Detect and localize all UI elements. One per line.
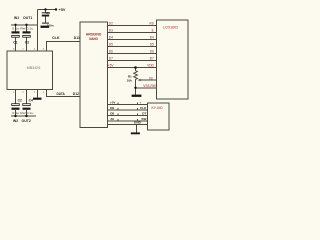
svg-text:C1: C1 xyxy=(13,40,17,44)
svg-text:OUT1: OUT1 xyxy=(23,16,32,20)
svg-text:VSS,RW: VSS,RW xyxy=(143,84,156,88)
svg-text:DT: DT xyxy=(142,112,146,116)
svg-text:LCD1602: LCD1602 xyxy=(163,26,178,30)
svg-text:+5V: +5V xyxy=(108,64,115,68)
svg-text:D8: D8 xyxy=(110,112,114,116)
svg-text:CLK: CLK xyxy=(52,36,60,40)
svg-text:D9: D9 xyxy=(110,106,114,110)
svg-text:VDD: VDD xyxy=(147,64,154,68)
svg-text:CLK: CLK xyxy=(140,106,147,110)
svg-text:ARDUINO: ARDUINO xyxy=(86,32,102,36)
svg-text:D4: D4 xyxy=(150,36,154,40)
svg-text:MB3429: MB3429 xyxy=(27,66,41,70)
svg-text:D6: D6 xyxy=(150,50,154,54)
svg-text:D2: D2 xyxy=(109,22,113,26)
svg-text:IN1: IN1 xyxy=(14,16,19,20)
svg-text:+: + xyxy=(140,101,142,105)
svg-text:D7: D7 xyxy=(150,57,154,61)
svg-text:100n: 100n xyxy=(47,24,54,28)
svg-text:RS: RS xyxy=(149,22,153,26)
svg-text:D11: D11 xyxy=(74,36,80,40)
svg-text:DATA: DATA xyxy=(57,92,66,96)
svg-text:E: E xyxy=(152,29,154,33)
svg-text:D3: D3 xyxy=(109,29,113,33)
svg-text:D7: D7 xyxy=(109,57,113,61)
svg-text:D5: D5 xyxy=(150,43,154,47)
svg-text:0.1u Ref 0.1u: 0.1u Ref 0.1u xyxy=(12,27,34,31)
svg-text:OUT2: OUT2 xyxy=(22,119,31,123)
svg-text:IN2: IN2 xyxy=(13,119,18,123)
svg-text:V0: V0 xyxy=(149,76,153,80)
svg-text:D4: D4 xyxy=(109,36,113,40)
svg-text:D5: D5 xyxy=(109,43,113,47)
svg-text:+5V: +5V xyxy=(59,8,66,12)
svg-text:C6: C6 xyxy=(46,11,50,15)
svg-text:D6: D6 xyxy=(109,50,113,54)
svg-text:+5V: +5V xyxy=(110,101,117,105)
svg-text:10k: 10k xyxy=(127,78,132,82)
svg-text:KY-040: KY-040 xyxy=(152,106,163,110)
svg-text:GND: GND xyxy=(134,121,142,125)
svg-text:D12: D12 xyxy=(73,92,79,96)
svg-text:NANO: NANO xyxy=(89,37,98,41)
svg-text:SW: SW xyxy=(141,117,146,121)
svg-text:C4: C4 xyxy=(29,99,33,103)
svg-text:A0: A0 xyxy=(110,117,114,121)
svg-text:C3: C3 xyxy=(25,40,29,44)
svg-text:C2: C2 xyxy=(18,99,22,103)
svg-text:0.1u Ref 0.1u: 0.1u Ref 0.1u xyxy=(12,111,34,115)
